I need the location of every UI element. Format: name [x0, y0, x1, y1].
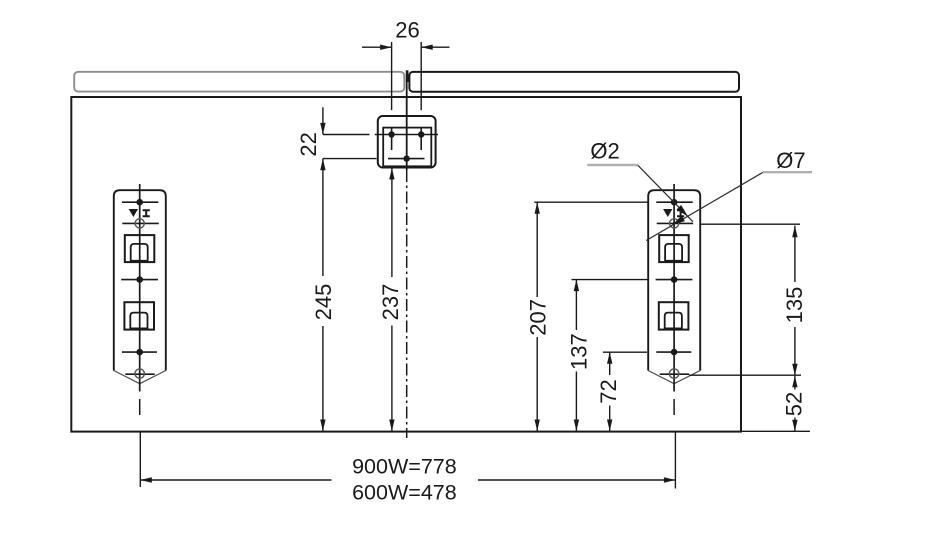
bracket hole cross line	[323, 134, 370, 136]
left hinge plate bottom adjustment hole	[125, 373, 154, 375]
dimension 26 extension lines	[391, 42, 393, 110]
left hinge plate I-beam icon	[143, 209, 150, 217]
left hinge plate middle screw hole	[121, 279, 158, 281]
right hinge plate bottom adjustment hole	[660, 373, 689, 375]
left hinge plate center line	[139, 184, 141, 392]
bottom dimension extension line left	[139, 432, 141, 487]
vertical center line through rail gap and bracket	[406, 70, 408, 170]
right hinge plate lower square cutout	[659, 302, 689, 329]
svg-text:52: 52	[781, 392, 806, 416]
right hinge plate I-beam icon	[677, 209, 684, 217]
dimension 22 line and arrows	[322, 107, 324, 134]
right hinge plate upper adjustment hole (7mm)	[657, 222, 694, 224]
extension line middle hole to 137	[572, 279, 649, 281]
svg-text:600W=478: 600W=478	[352, 481, 457, 505]
top suspension bracket outer body	[378, 116, 436, 168]
dimension 237 line and arrows	[391, 168, 393, 277]
svg-text:Ø7: Ø7	[776, 148, 805, 173]
extension line bottom circle shared 135/52	[689, 374, 801, 376]
left hinge plate lower screw hole	[122, 351, 157, 353]
svg-text:137: 137	[567, 333, 592, 370]
dimension 135 line and arrows	[794, 226, 796, 282]
dimension 72 line and arrows	[609, 352, 611, 375]
svg-text:22: 22	[296, 132, 321, 156]
svg-text:Ø2: Ø2	[590, 138, 619, 163]
cabinet back panel outline	[71, 97, 741, 432]
left hinge plate bottom chamfer	[114, 371, 166, 384]
wall mounting rail left segment	[74, 72, 404, 92]
left hinge plate plate outline	[114, 190, 166, 370]
right hinge plate arrow-down icon	[663, 209, 672, 217]
svg-text:72: 72	[596, 379, 621, 403]
extension line top hole to 207	[534, 201, 648, 203]
left hinge plate arrow-down icon	[129, 209, 138, 217]
extension line lower hole to 72	[603, 351, 647, 353]
left hinge plate top screw hole (2mm)	[122, 201, 158, 203]
left hinge plate upper adjustment hole (7mm)	[122, 222, 159, 224]
svg-text:900W=778: 900W=778	[352, 455, 457, 479]
dimension 207 line and arrows	[536, 202, 538, 297]
dimension 137 line and arrows	[575, 280, 577, 330]
right hinge plate top screw hole (2mm)	[656, 201, 692, 203]
right hinge plate center line	[673, 184, 675, 392]
dash-dot center line to panel bottom	[406, 170, 408, 438]
dimension 245 line and arrows	[322, 159, 324, 276]
bottom dimension line and arrows	[140, 479, 331, 481]
leader line for 7mm hole label	[763, 171, 812, 173]
svg-text:135: 135	[782, 287, 807, 324]
bracket right hole	[420, 128, 422, 150]
bottom dimension extension line right	[674, 432, 676, 489]
bracket left hole	[391, 128, 393, 150]
bracket lower hole cross	[323, 158, 377, 160]
top suspension bracket inner body	[383, 128, 431, 167]
wall mounting rail right segment	[409, 72, 739, 92]
right hinge plate bottom chamfer	[648, 371, 700, 384]
dimension 26 line and arrows	[362, 46, 392, 48]
right hinge plate plate outline	[648, 190, 700, 370]
right hinge plate upper square cutout	[659, 235, 689, 262]
svg-text:237: 237	[378, 284, 403, 321]
left hinge plate upper square cutout	[125, 235, 155, 262]
extension line upper circle to 135	[700, 223, 800, 225]
svg-text:245: 245	[311, 284, 336, 321]
dimension 52 line and arrows	[794, 376, 796, 390]
right hinge plate lower screw hole	[656, 351, 691, 353]
left hinge plate lower square cutout	[124, 302, 154, 329]
svg-text:207: 207	[526, 299, 551, 336]
right hinge plate middle screw hole	[656, 279, 693, 281]
svg-text:26: 26	[395, 18, 419, 43]
leader line for 2mm hole label	[587, 164, 638, 166]
extension line panel bottom right	[741, 430, 810, 432]
